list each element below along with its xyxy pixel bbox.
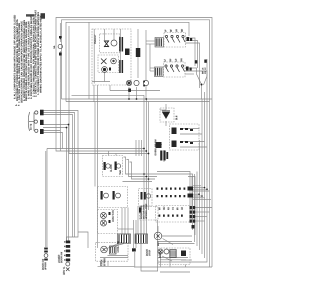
svg-text:WIRING DIAGRAM NOTES APPLY TO: WIRING DIAGRAM NOTES APPLY TO ALL MODELS… [39,15,42,93]
